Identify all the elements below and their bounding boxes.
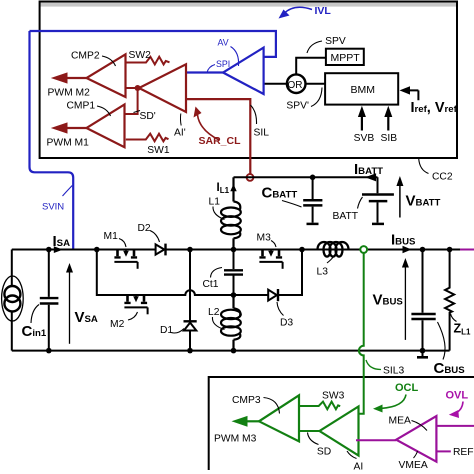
svg-text:AI: AI [354, 462, 364, 473]
arrow OVL pointer [456, 402, 463, 414]
wire SW3 input [299, 402, 340, 410]
wire PWM M2 output arrow [64, 77, 87, 79]
label SD' [134, 111, 141, 113]
svg-text:REF: REF [453, 447, 474, 458]
wire PWM M1 output arrow [64, 127, 87, 129]
node SIL3 green circle [360, 246, 367, 253]
label D3 [277, 302, 284, 316]
arrow OCL pointer [380, 395, 406, 409]
label Ct1 [211, 268, 223, 278]
diode D3 [268, 290, 277, 301]
label D1 [171, 329, 184, 334]
arrow SVB into BMM [361, 114, 363, 131]
transistor M3 [263, 250, 280, 257]
svg-text:BMM: BMM [351, 84, 376, 96]
capacitor CBUS [422, 250, 424, 351]
wire D1 branch [189, 250, 191, 351]
label AV [231, 47, 239, 67]
node D3 top [299, 247, 305, 253]
svg-text:SW1: SW1 [147, 145, 170, 156]
svg-text:SIL3: SIL3 [383, 366, 404, 377]
wire bottom rail [12, 350, 450, 352]
svg-text:M1: M1 [104, 231, 119, 242]
label L3 [327, 257, 334, 264]
svg-text:L3: L3 [317, 267, 329, 278]
wire battery rail [234, 176, 378, 178]
wire SVIN blue left [30, 31, 74, 249]
svg-text:CMP2: CMP2 [71, 51, 100, 62]
label CMP1 [97, 106, 111, 116]
label SIL3 [366, 360, 381, 370]
label CBATT [282, 201, 302, 208]
wire MEA output to SD [356, 439, 396, 441]
op-amp AV [223, 48, 264, 94]
wire Iref,Vref into BMM [406, 90, 418, 100]
wire REF input [436, 450, 450, 452]
inductor L1 [232, 177, 234, 201]
svg-text:AI': AI' [174, 128, 186, 139]
label BATT [358, 197, 363, 209]
svg-text:PWM M1: PWM M1 [47, 138, 90, 149]
wire SIL3 green [359, 253, 364, 414]
box CC2 outer [40, 2, 457, 159]
svg-text:L2: L2 [208, 307, 220, 318]
wire OR to BMM [306, 83, 326, 85]
svg-text:CMP1: CMP1 [67, 101, 96, 112]
svg-text:SIB: SIB [381, 133, 398, 144]
arrow IL1 [230, 184, 236, 191]
capacitor Ct1 [233, 250, 235, 296]
svg-text:OR: OR [288, 80, 303, 91]
svg-text:M2: M2 [110, 319, 125, 330]
label AI' [179, 114, 182, 126]
comparator CMP2 [87, 54, 126, 97]
resistor ZL1 [445, 250, 454, 351]
label MEA [412, 421, 428, 431]
wire SD' (node to CMP1 upper input) [125, 88, 138, 114]
op-amp MEA [396, 416, 436, 462]
wire bus magenta tail [460, 249, 474, 251]
wire D3 branch [234, 250, 303, 296]
op-amp SAR_CL [139, 64, 186, 112]
transistor M1 [118, 250, 135, 257]
label M3 [271, 241, 276, 248]
svg-text:OCL: OCL [395, 382, 419, 394]
box OCL/OVL bottom [209, 377, 474, 470]
node CBUS bottom [420, 348, 426, 354]
svg-text:IVL: IVL [315, 5, 332, 17]
diode D1 [184, 323, 196, 331]
wire CMP2 lower input from node [126, 87, 138, 89]
svg-text:SPV': SPV' [286, 101, 309, 112]
svg-text:SVB: SVB [354, 133, 375, 144]
svg-text:Ct1: Ct1 [203, 279, 219, 290]
svg-text:AV: AV [218, 37, 229, 47]
node CBUS top [420, 247, 426, 253]
svg-text:VMEA: VMEA [399, 460, 428, 471]
wire OR to AV [264, 83, 288, 85]
label ZL1 [451, 314, 457, 322]
svg-text:BATT: BATT [333, 211, 359, 222]
comparator CMP1 [87, 105, 125, 148]
svg-text:SAR_CL: SAR_CL [199, 135, 242, 147]
label SPV [307, 41, 322, 53]
svg-text:SD': SD' [140, 111, 156, 122]
svg-text:SPV: SPV [325, 36, 346, 47]
node ZL1 top [447, 247, 453, 253]
node Ct1 top [231, 247, 237, 253]
svg-text:D3: D3 [280, 318, 293, 329]
label SPI [207, 65, 215, 73]
node SIL terminal circle [247, 174, 254, 181]
svg-text:MEA: MEA [389, 415, 411, 426]
wire SD output to CMP3 [299, 430, 320, 432]
block MPPT [326, 49, 364, 65]
arrow IBUS [403, 246, 412, 254]
wire IVL blue frame top [30, 31, 276, 57]
label M1 [119, 239, 126, 248]
label CBUS [438, 322, 446, 360]
OR gate [287, 74, 306, 93]
wire SIL (to SAR lower input) [186, 99, 250, 174]
node Cin1 bottom [46, 348, 52, 354]
svg-text:SVIN: SVIN [42, 202, 64, 213]
svg-text:CC2: CC2 [432, 172, 453, 183]
arrow ISA [54, 246, 63, 253]
label SPV' [311, 88, 322, 107]
svg-text:PWM M2: PWM M2 [48, 88, 91, 99]
wire M2 branch [97, 250, 234, 296]
node SAR output [135, 85, 141, 91]
svg-text:D1: D1 [160, 325, 173, 336]
source PV array [2, 276, 24, 321]
wire MEA upper input [436, 425, 474, 427]
label CC2 [419, 159, 429, 174]
arrow VSA [69, 268, 71, 344]
node D1 bottom [187, 348, 193, 354]
arrow SAR_CL pointer [198, 115, 220, 140]
svg-text:SW3: SW3 [322, 391, 345, 402]
label L1 [213, 207, 225, 220]
label CMP2 [102, 56, 116, 66]
transistor M2 [128, 295, 145, 302]
node Cin1 top [46, 247, 52, 253]
svg-text:SPI: SPI [216, 59, 230, 69]
label SVIN [63, 186, 73, 197]
svg-text:SIL: SIL [254, 128, 270, 139]
label SD [308, 433, 319, 445]
wire SW2 input (CMP2 upper) [126, 57, 170, 65]
battery BATT [377, 177, 379, 222]
comparator CMP3 [259, 395, 299, 441]
op-amp SD [320, 407, 359, 456]
arrow IBATT [365, 173, 376, 181]
svg-text:SW2: SW2 [129, 50, 152, 61]
wire left branch [11, 250, 13, 351]
wire SPI (AV output to SAR input) [186, 71, 223, 73]
node M1/M2 branch [94, 247, 100, 253]
svg-text:L1: L1 [209, 197, 221, 208]
block BMM [325, 73, 398, 104]
svg-text:SD: SD [317, 446, 331, 457]
node CBATT top [310, 175, 316, 181]
inductor L2 [232, 295, 234, 308]
label SIL [251, 105, 257, 124]
capacitor Cin1 [48, 250, 50, 351]
arrow IVL pointer [284, 7, 312, 13]
capacitor CBATT [312, 177, 314, 222]
svg-text:CMP3: CMP3 [232, 395, 261, 406]
wire top rail [12, 249, 461, 251]
node D1 top [187, 247, 193, 253]
wire PWM M3 output arrow [245, 420, 259, 422]
svg-text:OVL: OVL [446, 390, 469, 402]
label M2 [128, 312, 138, 320]
label VMEA [414, 451, 418, 458]
svg-text:D2: D2 [138, 223, 151, 234]
arrow SIB into BMM [387, 114, 389, 131]
node L2 top [231, 292, 237, 298]
gray top band [40, 2, 457, 6]
wire OR to MPPT [296, 58, 326, 75]
svg-text:M3: M3 [257, 233, 272, 244]
wire SW1 input (CMP1 lower) [126, 134, 169, 142]
node L2 bottom [231, 348, 237, 354]
arrow VBUS [404, 263, 406, 340]
label D2 [150, 231, 160, 243]
ground [422, 351, 424, 357]
label CMP3 [264, 398, 280, 414]
arrow VBATT [399, 183, 401, 218]
label Cin1 [31, 305, 39, 324]
svg-text:PWM M3: PWM M3 [214, 434, 257, 445]
diode D2 [156, 244, 165, 254]
label AI [347, 451, 357, 459]
label L2 [212, 317, 224, 330]
svg-text:MPPT: MPPT [331, 52, 361, 64]
inductor L3 [318, 242, 349, 257]
